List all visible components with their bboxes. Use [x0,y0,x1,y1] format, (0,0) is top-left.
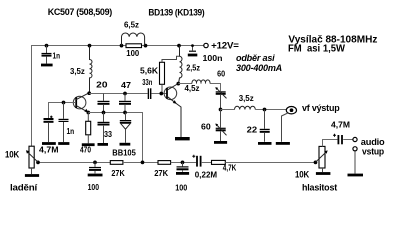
capacitor 1n (C1) plates [42,53,52,55]
svg-text:10K: 10K [5,149,19,160]
ground pot hlasitost [316,172,331,175]
svg-text:hlasitost: hlasitost [302,183,338,194]
resistor 4,7K (R6) [212,160,226,164]
svg-text:1n: 1n [67,126,75,136]
resistor 5,6K (R3) [160,62,165,84]
varicap BB105 (D1) [125,113,127,121]
svg-text:3,5z: 3,5z [70,66,85,76]
wire collector Q2 [178,83,192,85]
node collector dot Q1 [87,91,91,95]
ground 33 [98,143,109,146]
svg-text:60: 60 [201,122,211,132]
trimmer 60 (C8) [216,91,226,93]
node emitter dot Q1 [86,111,90,115]
svg-text:ladění: ladění [10,183,38,194]
capacitor 1n (C1) lead [46,46,48,54]
node 100n tap [191,44,194,47]
svg-text:0,22M: 0,22M [195,169,217,179]
wire audio line [171,162,197,164]
wire collector node [89,93,147,95]
ground audio [348,174,364,177]
svg-text:27K: 27K [154,168,169,178]
ground C1 [41,64,53,67]
resistor 27K (R5) [158,161,171,165]
capacitor 100 (C12) [182,163,184,167]
svg-text:22: 22 [247,125,258,135]
potentiometer 10K hlasitost [319,146,325,168]
terminal audio vstup [353,137,357,141]
node trimmer junction [219,108,223,112]
capacitor 4,7M audio in [337,135,339,144]
inductor 4,5z (L4) [192,80,210,84]
capacitor 22 (C10) [264,110,266,129]
wire Q1 base [49,103,76,119]
potentiometer 10K ladeni [29,146,34,168]
ground Q2 emitter [175,137,190,140]
ground 22 [258,142,272,145]
capacitor 33 (C6) [103,113,105,122]
inductor 3,5z (L1) [90,46,93,94]
svg-text:2,5z: 2,5z [186,63,200,73]
inductor 6,5z (L2) [122,33,145,46]
transistor Q1 KC507 [73,96,86,109]
ground 4,7M [42,142,56,145]
svg-text:3,5z: 3,5z [239,93,254,103]
ground pot ladeni [25,174,39,177]
svg-text:BD139 (KD139): BD139 (KD139) [148,8,204,18]
node C12 junction [181,161,185,165]
wire C1 to ground [46,57,48,64]
svg-text:5,6K: 5,6K [140,66,159,76]
terminal +12V [204,43,208,47]
svg-text:47: 47 [121,80,131,90]
ground C11 [88,174,103,177]
svg-text:20: 20 [96,79,108,89]
ground 470 [82,143,95,146]
capacitor 100 (C11) [93,161,97,165]
svg-text:33: 33 [104,129,112,139]
svg-text:KC507 (508,509): KC507 (508,509) [48,7,113,17]
node dot base/1n [62,101,66,105]
capacitor 0,22M (C13) [196,156,198,167]
ground vf [276,142,290,145]
svg-text:100n: 100n [203,53,223,63]
svg-text:60: 60 [217,69,225,79]
svg-text:10K: 10K [295,170,309,181]
svg-text:33n: 33n [142,77,152,87]
capacitor 33n (C7) [147,88,149,99]
trimmer 60 (C9) [220,110,222,128]
svg-text:27K: 27K [111,168,125,178]
wire to trimmer [210,84,221,92]
node varicap bias junction [141,161,145,165]
svg-text:470: 470 [80,144,91,154]
node collector dot Q2 [176,82,180,86]
wire audio line [123,162,158,164]
resistor 27K (R4) [110,161,123,165]
svg-text:100: 100 [175,183,187,193]
terminal vf vystup [286,107,296,114]
node junction dots L2/R1 [120,44,124,48]
svg-text:4,7M: 4,7M [331,120,350,130]
svg-text:FM asi 1,5W: FM asi 1,5W [288,44,345,55]
node R3 base junction [159,92,163,96]
wire audio line to volume pot [225,162,315,164]
ground trimmer C9 [214,141,227,144]
ground C12 [176,172,189,175]
svg-text:4,7K: 4,7K [223,163,237,173]
svg-text:4,7M: 4,7M [39,144,59,154]
wire top rail [32,46,204,147]
svg-text:4,5z: 4,5z [185,83,200,93]
capacitor 100n (C2) [192,46,194,51]
inductor 2,5z (L3) [179,46,183,84]
svg-text:100: 100 [126,48,139,58]
svg-text:BB105: BB105 [112,147,136,157]
node junction dot L1 top [88,44,92,48]
ground 1n [58,142,69,145]
capacitor 4,7M electrolytic [44,118,54,120]
node C10 junction [263,108,267,112]
resistor 100 (R1) [126,44,142,48]
audio line wires [38,162,110,164]
svg-text:100: 100 [88,182,100,192]
node junction dot C1 top [45,44,49,48]
inductor 3,5z (L5) [235,106,256,109]
node junction dot L3 top [177,44,181,48]
wire to output coil [221,109,235,111]
svg-text:1n: 1n [53,50,61,60]
capacitor 20 (C4) [103,94,105,101]
capacitor 47 (C5) [123,92,127,96]
svg-text:vstup: vstup [362,147,384,158]
svg-text:+12V=: +12V= [211,41,239,52]
wire to vf terminal [255,109,286,111]
wire emitter node [88,113,142,163]
svg-text:300-400mA: 300-400mA [236,63,282,73]
svg-text:vf výstup: vf výstup [302,103,340,114]
resistor 470 (R2) [87,113,89,122]
svg-text:6,5z: 6,5z [124,20,139,30]
ground BB105 [120,143,131,146]
svg-text:odběr asi: odběr asi [236,53,275,63]
capacitor 1n (C3) [63,103,65,119]
transistor Q2 BD139 [164,87,177,100]
